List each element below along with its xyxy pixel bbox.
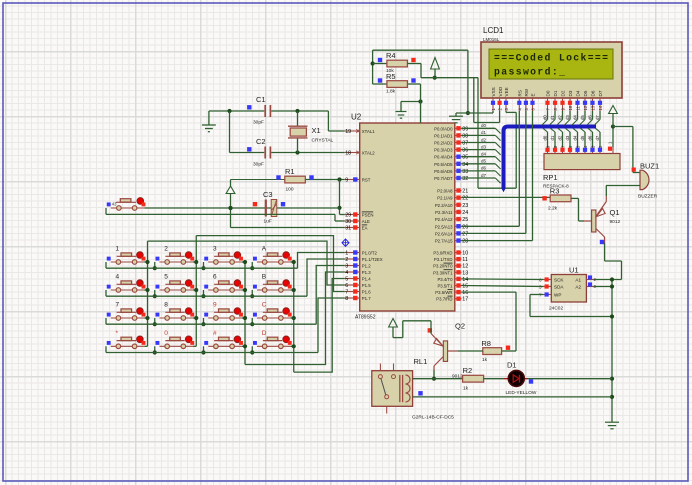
svg-text:16: 16	[462, 290, 468, 296]
svg-text:1k: 1k	[482, 357, 488, 363]
svg-text:14: 14	[462, 277, 468, 283]
svg-text:XTAL2: XTAL2	[362, 151, 375, 156]
svg-text:ALE: ALE	[362, 219, 370, 224]
svg-text:D2: D2	[561, 90, 566, 96]
svg-text:P0.4/AD4: P0.4/AD4	[434, 155, 453, 160]
svg-text:13: 13	[591, 105, 596, 110]
svg-text:d1: d1	[550, 135, 555, 140]
svg-text:8: 8	[345, 296, 348, 302]
svg-text:P2.0/A8: P2.0/A8	[437, 189, 453, 194]
svg-text:VEE: VEE	[504, 87, 509, 96]
svg-text:7: 7	[345, 290, 348, 296]
svg-text:U2: U2	[351, 113, 362, 122]
svg-text:d5: d5	[580, 115, 585, 120]
svg-text:BUZ1: BUZ1	[640, 162, 659, 171]
svg-text:EA: EA	[362, 226, 368, 231]
svg-text:33: 33	[462, 169, 468, 175]
svg-text:P2.5/A13: P2.5/A13	[435, 224, 453, 229]
svg-text:P3.1/TXD: P3.1/TXD	[434, 257, 453, 262]
svg-text:d0: d0	[481, 123, 487, 128]
svg-text:P2.3/A11: P2.3/A11	[435, 210, 453, 215]
svg-text:d3: d3	[565, 135, 570, 140]
svg-text:d7: d7	[595, 135, 600, 140]
svg-text:R3: R3	[550, 187, 560, 196]
svg-text:P0.0/AD0: P0.0/AD0	[434, 126, 453, 131]
svg-text:d6: d6	[481, 166, 487, 171]
svg-text:A2: A2	[575, 285, 581, 290]
svg-text:100: 100	[286, 187, 294, 193]
svg-text:24: 24	[462, 210, 468, 216]
svg-text:d6: d6	[587, 115, 592, 120]
svg-text:22: 22	[462, 196, 468, 202]
svg-text:P0.5/AD5: P0.5/AD5	[434, 162, 453, 167]
svg-text:RS: RS	[518, 90, 523, 96]
svg-text:PSEN: PSEN	[362, 213, 374, 218]
svg-text:1: 1	[345, 251, 348, 257]
svg-text:U1: U1	[569, 266, 579, 275]
svg-text:D1: D1	[507, 361, 517, 370]
svg-text:d5: d5	[580, 135, 585, 140]
svg-text:d1: d1	[481, 130, 487, 135]
svg-text:P1.6: P1.6	[362, 290, 371, 295]
svg-text:C: C	[262, 302, 267, 309]
svg-text:P2.6/A14: P2.6/A14	[435, 231, 453, 236]
svg-text:37: 37	[462, 141, 468, 147]
svg-text:RP1: RP1	[543, 173, 558, 182]
svg-text:P2.2/A10: P2.2/A10	[435, 203, 453, 208]
svg-text:27: 27	[462, 231, 468, 237]
svg-text:A1: A1	[575, 278, 581, 283]
svg-text:P1.2: P1.2	[362, 264, 371, 269]
svg-text:9012: 9012	[610, 219, 621, 225]
svg-text:VSS: VSS	[491, 87, 496, 96]
svg-text:d7: d7	[595, 115, 600, 120]
svg-text:32: 32	[462, 176, 468, 182]
svg-text:P1.5: P1.5	[362, 283, 371, 288]
svg-text:D1: D1	[553, 90, 558, 96]
svg-text:D0: D0	[546, 90, 551, 96]
svg-text:31: 31	[345, 226, 351, 232]
svg-text:d0: d0	[542, 115, 547, 120]
svg-text:R2: R2	[463, 366, 473, 375]
svg-text:7: 7	[116, 302, 120, 309]
svg-text:password:_: password:_	[494, 67, 565, 78]
svg-text:D4: D4	[576, 90, 581, 96]
svg-text:3: 3	[345, 264, 348, 270]
svg-text:38: 38	[462, 133, 468, 139]
svg-text:35: 35	[462, 155, 468, 161]
svg-text:E: E	[531, 93, 536, 96]
svg-text:P3.2/INT0: P3.2/INT0	[433, 264, 453, 269]
svg-text:6: 6	[213, 274, 217, 281]
svg-text:d2: d2	[557, 115, 562, 120]
svg-text:d4: d4	[572, 115, 577, 120]
svg-text:d7: d7	[481, 173, 487, 178]
svg-text:P0.1/AD1: P0.1/AD1	[434, 133, 453, 138]
svg-text:P0.2/AD2: P0.2/AD2	[434, 141, 453, 146]
svg-text:P3.5/T1: P3.5/T1	[437, 284, 453, 289]
svg-text:D3: D3	[568, 90, 573, 96]
svg-text:23: 23	[462, 203, 468, 209]
svg-text:P3.7/RD: P3.7/RD	[436, 297, 452, 302]
svg-text:RW: RW	[524, 88, 529, 96]
svg-text:C2: C2	[256, 137, 266, 146]
svg-text:*: *	[116, 330, 119, 337]
svg-text:P3.6/WR: P3.6/WR	[435, 290, 452, 295]
svg-text:C1: C1	[256, 95, 266, 104]
svg-text:A: A	[262, 246, 267, 253]
svg-text:VDD: VDD	[498, 86, 503, 96]
svg-text:P1.7: P1.7	[362, 296, 371, 301]
svg-text:d3: d3	[565, 115, 570, 120]
svg-text:d5: d5	[481, 159, 487, 164]
svg-text:0: 0	[164, 330, 168, 337]
svg-text:4: 4	[116, 274, 120, 281]
svg-text:15: 15	[462, 284, 468, 290]
svg-text:2: 2	[345, 257, 348, 263]
svg-text:24C02: 24C02	[549, 306, 563, 312]
svg-text:4: 4	[345, 270, 348, 276]
svg-text:1k: 1k	[463, 386, 469, 392]
svg-text:d4: d4	[572, 135, 577, 140]
svg-text:11: 11	[576, 105, 581, 110]
svg-text:3: 3	[213, 246, 217, 253]
svg-text:14: 14	[598, 105, 603, 110]
svg-text:25: 25	[462, 217, 468, 223]
svg-text:P2.1/A9: P2.1/A9	[437, 196, 453, 201]
svg-text:11: 11	[462, 257, 468, 263]
svg-text:2: 2	[164, 246, 168, 253]
svg-text:LED-YELLOW: LED-YELLOW	[506, 390, 537, 396]
svg-text:1: 1	[116, 246, 120, 253]
svg-text:6: 6	[345, 283, 348, 289]
svg-text:21: 21	[462, 189, 468, 195]
svg-text:R1: R1	[285, 167, 295, 176]
svg-text:d2: d2	[481, 137, 487, 142]
svg-text:R4: R4	[386, 51, 396, 60]
svg-text:SCK: SCK	[554, 278, 564, 283]
svg-text:XTAL1: XTAL1	[362, 129, 375, 134]
svg-text:===Coded Lock===: ===Coded Lock===	[494, 53, 608, 64]
svg-text:X1: X1	[312, 126, 321, 135]
svg-text:d3: d3	[481, 144, 487, 149]
svg-text:d1: d1	[550, 115, 555, 120]
svg-text:R8: R8	[481, 339, 491, 348]
svg-text:17: 17	[462, 297, 468, 303]
svg-text:9: 9	[213, 302, 217, 309]
svg-text:12: 12	[583, 105, 588, 110]
svg-text:d2: d2	[557, 135, 562, 140]
svg-text:P1.0/T2: P1.0/T2	[362, 251, 378, 256]
svg-text:WP: WP	[554, 293, 561, 298]
svg-text:P3.4/T0: P3.4/T0	[437, 277, 453, 282]
svg-text:R5: R5	[386, 72, 396, 81]
svg-text:P0.7/AD7: P0.7/AD7	[434, 176, 453, 181]
svg-text:D7: D7	[598, 90, 603, 96]
svg-text:BUZZER: BUZZER	[638, 194, 658, 200]
svg-text:26: 26	[462, 224, 468, 230]
svg-text:P3.0/RXD: P3.0/RXD	[433, 251, 452, 256]
svg-text:D: D	[262, 330, 267, 337]
svg-text:28: 28	[462, 239, 468, 245]
svg-text:13: 13	[462, 270, 468, 276]
svg-text:39: 39	[462, 126, 468, 132]
svg-text:D5: D5	[583, 90, 588, 96]
svg-text:30pF: 30pF	[253, 120, 264, 126]
svg-text:CRYSTAL: CRYSTAL	[312, 138, 334, 144]
svg-text:D6: D6	[591, 90, 596, 96]
svg-text:SDA: SDA	[554, 285, 564, 290]
svg-text:d6: d6	[587, 135, 592, 140]
svg-text:9: 9	[345, 178, 348, 184]
svg-text:P1.3: P1.3	[362, 270, 371, 275]
svg-text:RL1: RL1	[414, 357, 428, 366]
svg-text:5: 5	[164, 274, 168, 281]
svg-text:d0: d0	[542, 135, 547, 140]
svg-text:RST: RST	[362, 178, 371, 183]
svg-text:P2.4/A12: P2.4/A12	[435, 217, 453, 222]
svg-text:AT89S52: AT89S52	[355, 315, 376, 321]
svg-text:G2RL-14B-CF-DC5: G2RL-14B-CF-DC5	[412, 415, 454, 421]
svg-text:1.8k: 1.8k	[386, 89, 396, 95]
svg-text:P0.6/AD6: P0.6/AD6	[434, 169, 453, 174]
svg-text:LM016L: LM016L	[483, 37, 500, 42]
svg-text:8: 8	[164, 302, 168, 309]
svg-text:10: 10	[462, 251, 468, 257]
svg-text:P1.1/T2EX: P1.1/T2EX	[362, 257, 383, 262]
svg-text:12: 12	[462, 264, 468, 270]
svg-text:B: B	[262, 274, 266, 281]
svg-text:30pF: 30pF	[253, 162, 264, 168]
svg-text:2.2k: 2.2k	[548, 206, 558, 212]
svg-text:29: 29	[345, 213, 351, 219]
svg-text:#: #	[213, 330, 217, 337]
svg-text:1: 1	[608, 141, 613, 144]
svg-text:P3.3/INT1: P3.3/INT1	[433, 270, 453, 275]
svg-text:19: 19	[345, 129, 351, 135]
svg-text:Q2: Q2	[455, 322, 465, 331]
svg-text:P0.3/AD3: P0.3/AD3	[434, 148, 453, 153]
svg-text:d4: d4	[481, 152, 487, 157]
svg-text:5: 5	[345, 277, 348, 283]
svg-text:C3: C3	[263, 190, 273, 199]
svg-text:10: 10	[568, 105, 573, 110]
svg-text:P2.7/A15: P2.7/A15	[435, 239, 453, 244]
svg-text:34: 34	[462, 162, 468, 168]
svg-text:36: 36	[462, 148, 468, 154]
svg-text:Q1: Q1	[610, 208, 620, 217]
svg-text:LCD1: LCD1	[483, 26, 504, 35]
svg-text:18: 18	[345, 151, 351, 157]
svg-text:1uF: 1uF	[264, 219, 272, 225]
svg-text:30: 30	[345, 219, 351, 225]
svg-text:P1.4: P1.4	[362, 277, 371, 282]
